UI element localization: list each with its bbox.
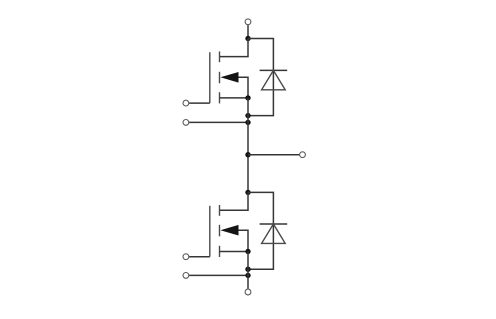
wire — [247, 98, 249, 192]
node diode junction — [245, 113, 250, 118]
terminal G2 — [183, 254, 189, 260]
terminal S1 (aux source) — [183, 120, 189, 126]
diode D2 — [260, 224, 288, 243]
terminal T1 (top drain) — [245, 19, 251, 25]
wire — [220, 39, 249, 57]
node source junction — [245, 95, 250, 100]
terminal G1 — [183, 100, 189, 106]
node diode junction — [245, 267, 250, 272]
wire — [220, 192, 249, 210]
wire — [248, 192, 273, 269]
diode D1 — [260, 70, 288, 89]
wire — [247, 252, 249, 289]
terminal S2 (aux source) — [183, 273, 189, 279]
wire — [189, 274, 248, 276]
node output junction — [245, 152, 250, 157]
wire — [247, 25, 249, 38]
node aux source junction — [245, 273, 250, 278]
transistor Q2 — [210, 205, 248, 257]
terminal OUT — [300, 152, 306, 158]
node aux source junction — [245, 120, 250, 125]
terminal T2 (bottom source) — [245, 289, 251, 295]
wire — [189, 121, 248, 123]
wire — [248, 39, 273, 116]
wire — [189, 256, 210, 258]
node drain junction — [245, 36, 250, 41]
wire — [248, 154, 299, 156]
wire — [189, 102, 210, 104]
transistor Q1 — [210, 51, 248, 103]
node source junction — [245, 249, 250, 254]
node phase junction — [245, 190, 250, 195]
